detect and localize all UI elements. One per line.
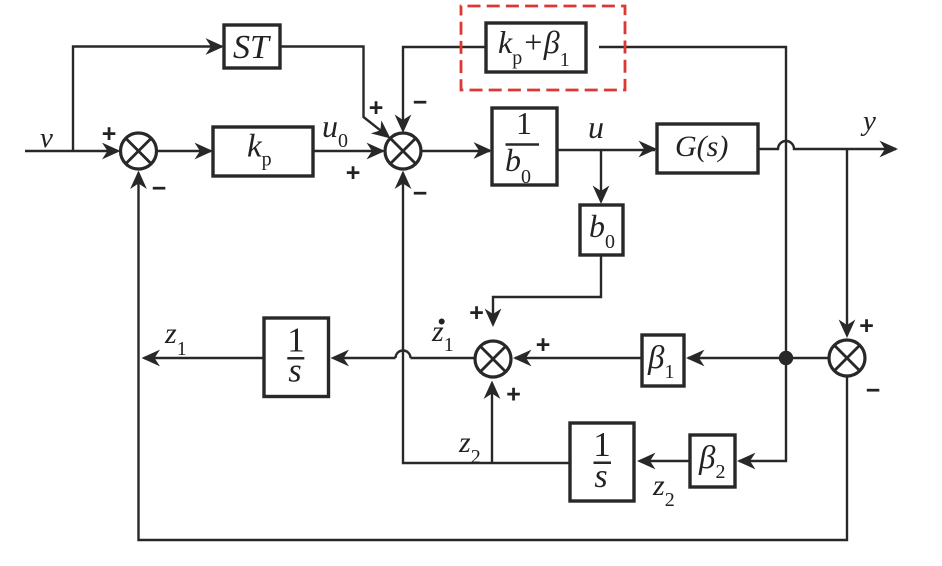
red dashed highlight box xyxy=(461,6,625,90)
svg-text:−: − xyxy=(413,180,428,208)
dot of zdot1 xyxy=(439,319,445,325)
wire S4 output to node to beta1 xyxy=(688,357,829,359)
arrowhead into G(s) xyxy=(639,141,658,158)
svg-text:u0: u0 xyxy=(322,108,348,152)
svg-text:+: + xyxy=(859,312,874,340)
wire b0 output into S3 top xyxy=(493,255,601,323)
block kp xyxy=(213,127,313,176)
svg-text:+: + xyxy=(369,94,384,122)
svg-text:−: − xyxy=(413,89,428,117)
fraction bar 1/s z1 xyxy=(287,357,304,360)
svg-text:b0: b0 xyxy=(589,208,615,253)
block 1/b0 xyxy=(492,108,557,185)
arrowhead into 1/s z2 xyxy=(637,453,656,470)
arrowhead z1 onto feedback line xyxy=(142,350,161,367)
wire kp output u0 to S2 xyxy=(313,150,383,152)
block beta1 xyxy=(642,335,684,386)
svg-text:kp: kp xyxy=(247,129,272,171)
wire beta1 output to S3 xyxy=(515,357,642,359)
svg-text:z2: z2 xyxy=(458,426,481,468)
wire big feedback loop S4 to S1 xyxy=(139,173,848,540)
wire u branch down to b0 xyxy=(600,150,602,201)
svg-text:+: + xyxy=(102,120,117,148)
wire v input xyxy=(25,150,118,152)
arrowhead b0 into S3 gap xyxy=(485,309,502,328)
arrowhead into beta1 xyxy=(686,350,705,367)
wire zdot1 continue to 1/s xyxy=(334,357,396,359)
summing junction S1 xyxy=(121,133,157,169)
arrowhead into ST xyxy=(206,38,225,55)
summing junction S3 xyxy=(475,341,511,377)
wire 1/b0 output u to G(s) xyxy=(557,149,655,151)
svg-text:b0: b0 xyxy=(505,142,531,188)
arrowhead beta1 into S3 xyxy=(513,350,532,367)
svg-text:1: 1 xyxy=(516,105,532,141)
svg-text:+: + xyxy=(346,159,361,187)
svg-text:z1: z1 xyxy=(164,317,187,360)
arrowhead into S4 top xyxy=(839,320,856,339)
svg-text:ST: ST xyxy=(233,29,271,66)
wire ST output to summing junction S2 xyxy=(280,47,389,137)
arrowhead u0 into S2 xyxy=(367,143,386,160)
arrowhead into kp xyxy=(195,143,214,160)
arrowhead feedback into S1 bottom xyxy=(130,171,147,190)
svg-text:G(s): G(s) xyxy=(675,130,728,163)
arrowhead into beta2 xyxy=(737,453,756,470)
svg-text:β2: β2 xyxy=(698,440,725,483)
wire S2 output to 1/b0 xyxy=(421,150,490,152)
svg-text:−: − xyxy=(866,377,881,405)
wire kp+beta1 output to S2 top xyxy=(403,47,486,130)
summing junction S4 xyxy=(829,340,865,376)
wire S3 output zdot1 xyxy=(411,357,476,359)
arrowhead into 1/b0 xyxy=(474,142,493,159)
summing junction S2 xyxy=(385,133,421,169)
wire node down to beta2 xyxy=(739,365,786,461)
wire z2 row to S2 bottom xyxy=(403,173,570,463)
block b0 xyxy=(580,205,623,255)
block beta2 xyxy=(690,435,735,487)
svg-text:kp+β1: kp+β1 xyxy=(498,24,570,71)
wire hop over vertical at x403 xyxy=(396,351,411,358)
svg-text:s: s xyxy=(288,353,301,390)
node junction dot xyxy=(779,351,793,365)
svg-text:−: − xyxy=(152,175,167,203)
block kp+beta1 xyxy=(486,23,586,72)
svg-text:v: v xyxy=(40,122,53,154)
fraction bar 1/s z2 xyxy=(594,462,612,465)
svg-text:u: u xyxy=(588,109,604,145)
block G(s) xyxy=(657,124,758,173)
wire z2 branch up into S3 bottom xyxy=(491,383,493,463)
svg-text:y: y xyxy=(860,105,876,137)
arrowhead kp+beta1 into S2 top xyxy=(395,115,412,134)
fraction bar 1/b0 xyxy=(506,143,540,146)
arrowhead ST diagonal into S2 xyxy=(371,120,396,145)
block 1/s integrator z1 xyxy=(264,318,329,397)
arrowhead z2 into S2 bottom xyxy=(395,171,412,190)
svg-text:+: + xyxy=(469,299,484,327)
arrowhead z2 into S3 bottom xyxy=(484,381,501,400)
arrowhead into 1/s z1 xyxy=(331,350,350,367)
wire branch v up to ST xyxy=(73,47,222,152)
arrowhead into b0 xyxy=(593,186,610,205)
svg-text:β1: β1 xyxy=(647,340,674,383)
wire node up to kp+beta1 input xyxy=(599,47,786,351)
wire y branch down to S4 xyxy=(846,149,848,335)
wire 1/s output z1 to feedback line xyxy=(144,357,264,359)
wire G(s) output to y with hop xyxy=(758,141,896,149)
block 1/s integrator z2 xyxy=(570,423,634,501)
svg-text:z2: z2 xyxy=(652,469,675,511)
arrowhead y output xyxy=(880,141,899,158)
svg-text:+: + xyxy=(506,381,521,409)
block ST xyxy=(224,25,280,68)
wire S1 output to kp xyxy=(157,150,212,152)
svg-text:s: s xyxy=(594,458,607,495)
wire beta2 output to 1/s z2 xyxy=(640,460,690,462)
svg-text:+: + xyxy=(536,331,551,359)
arrowhead into S1 xyxy=(102,143,121,160)
